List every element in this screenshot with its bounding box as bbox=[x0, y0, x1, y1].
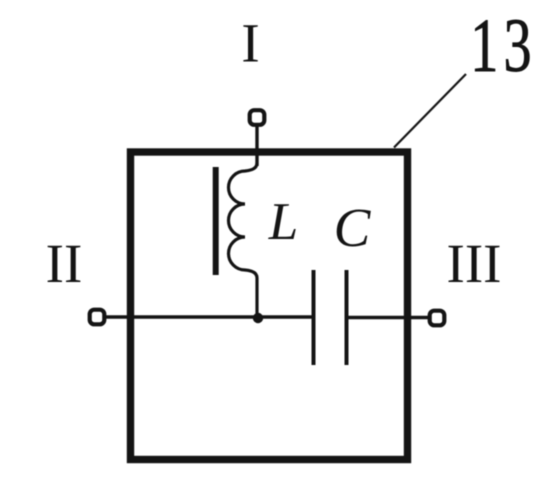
capacitor C right plate bbox=[345, 270, 349, 365]
wire from terminal I to inductor bbox=[255, 125, 258, 166]
label I bbox=[241, 13, 259, 74]
svg-text:II: II bbox=[46, 233, 83, 294]
svg-text:L: L bbox=[268, 193, 298, 251]
svg-text:13: 13 bbox=[470, 4, 537, 88]
terminal II (left port circle) bbox=[90, 310, 105, 325]
svg-text:I: I bbox=[241, 13, 259, 74]
capacitor C left plate bbox=[312, 270, 316, 365]
terminal I (top port circle) bbox=[250, 110, 265, 125]
enclosure box (component 13) bbox=[131, 152, 408, 460]
wire from terminal II to capacitor bbox=[104, 315, 312, 318]
junction node bbox=[253, 313, 263, 323]
svg-text:III: III bbox=[447, 233, 502, 294]
terminal III (right port circle) bbox=[430, 311, 445, 326]
wire from capacitor to terminal III bbox=[349, 316, 431, 319]
label II bbox=[46, 233, 83, 294]
leader line to 13 bbox=[394, 74, 466, 148]
label III bbox=[447, 233, 502, 294]
label 13 bbox=[470, 4, 537, 88]
label L bbox=[268, 193, 298, 251]
inductor L core bar bbox=[213, 167, 219, 275]
label C bbox=[334, 197, 372, 258]
svg-text:C: C bbox=[334, 197, 372, 258]
inductor L coil bbox=[229, 163, 258, 317]
